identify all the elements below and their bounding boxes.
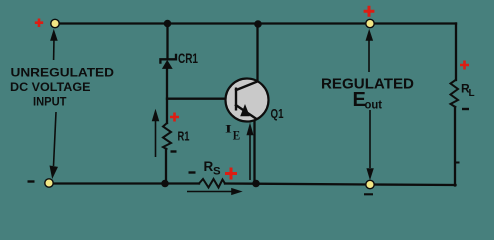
svg-text:R: R — [204, 159, 214, 174]
svg-text:S: S — [213, 166, 221, 178]
svg-text:CR1: CR1 — [178, 50, 198, 66]
svg-text:E: E — [233, 129, 240, 143]
svg-text:DC VOLTAGE: DC VOLTAGE — [10, 80, 91, 94]
svg-text:Q1: Q1 — [271, 106, 284, 121]
svg-text:out: out — [365, 99, 383, 111]
svg-text:L: L — [469, 88, 475, 99]
svg-text:I: I — [225, 122, 232, 136]
svg-text:INPUT: INPUT — [33, 95, 67, 109]
svg-text:R1: R1 — [178, 129, 190, 144]
svg-text:REGULATED: REGULATED — [321, 76, 414, 93]
svg-text:UNREGULATED: UNREGULATED — [11, 66, 115, 80]
